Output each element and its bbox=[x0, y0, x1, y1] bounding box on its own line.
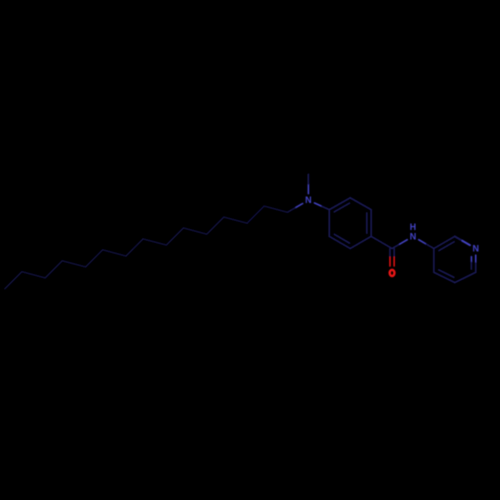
svg-text:N: N bbox=[410, 231, 417, 241]
svg-text:H: H bbox=[410, 222, 416, 232]
svg-text:N: N bbox=[472, 243, 479, 253]
svg-text:N: N bbox=[305, 195, 312, 205]
